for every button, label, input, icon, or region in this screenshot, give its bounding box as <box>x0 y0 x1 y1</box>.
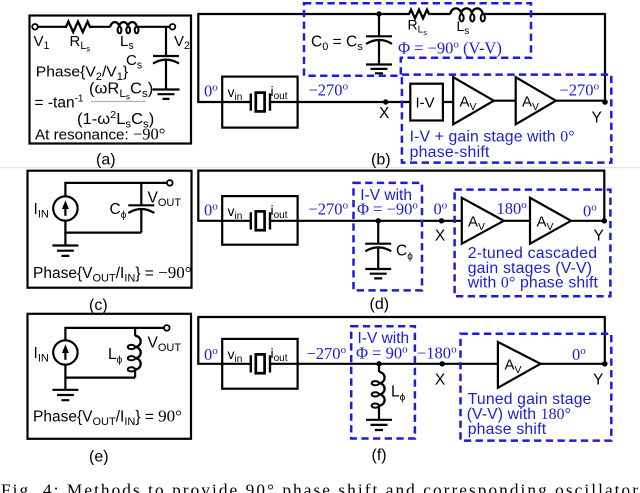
wire <box>38 26 64 28</box>
ground (d) <box>365 269 391 278</box>
svg-text:−270o: −270o <box>560 81 600 100</box>
svg-text:I-V: I-V <box>416 95 435 112</box>
formula numerator <box>89 80 153 101</box>
wire loop (d) <box>198 171 604 221</box>
wire crystal to I-V <box>270 101 410 103</box>
wire crystal to amp (f) <box>270 363 498 365</box>
node Y (b) <box>602 99 608 105</box>
svg-text:At resonance: −90°: At resonance: −90° <box>35 124 165 143</box>
wire into crystal (d) <box>197 220 251 222</box>
svg-text:(d): (d) <box>370 296 390 313</box>
inductor Ls (b) <box>451 8 485 21</box>
dashed box I-V (f) <box>351 326 415 438</box>
panel (c) frame <box>28 171 192 288</box>
capacitor Cs <box>153 56 179 90</box>
wire into crystal (f) <box>197 363 251 365</box>
inductor Lphi (e) <box>128 336 141 372</box>
svg-text:(f): (f) <box>372 447 387 464</box>
svg-text:Y: Y <box>594 227 604 244</box>
fraction bar <box>91 101 146 103</box>
capacitor C0 <box>366 36 392 64</box>
crystal X1 (d) <box>251 211 270 230</box>
formula denominator <box>77 109 154 130</box>
op-amp Av1 (d) <box>462 198 504 244</box>
panel (e) frame <box>28 314 192 439</box>
wire inductor branch (f) <box>378 364 380 372</box>
ground (c) <box>52 246 78 256</box>
terminal Vout (e) <box>164 325 170 331</box>
wire inductor branch (e) <box>134 328 136 336</box>
op-amp Av2 (b) <box>516 77 556 124</box>
op-amp Av1 (b) <box>453 77 494 124</box>
op-amp Av2 (d) <box>530 198 571 244</box>
wire into crystal <box>197 101 251 103</box>
svg-text:−270o: −270o <box>309 81 349 100</box>
wire loop left (b) <box>198 14 407 102</box>
svg-text:phase shift: phase shift <box>468 421 547 438</box>
crystal X1 (f) <box>251 354 270 373</box>
wire top (c) <box>65 183 167 196</box>
wire capacitor branch <box>165 27 167 56</box>
wire loop right (b) <box>483 14 605 102</box>
resistor R_Ls (b) <box>408 10 431 19</box>
inductor Lphi (f) <box>372 372 385 408</box>
svg-text:Fig. 4: Methods to provide 90°: Fig. 4: Methods to provide 90° phase shi… <box>1 480 638 493</box>
svg-text:with 0° phase shift: with 0° phase shift <box>467 275 599 292</box>
wire <box>430 13 450 15</box>
wire bottom (c) <box>65 221 141 233</box>
node cap tap (d) <box>376 218 381 223</box>
wire to Y (d) <box>571 220 604 222</box>
svg-text:(e): (e) <box>89 449 109 466</box>
wire top (e) <box>65 328 164 340</box>
inductor Ls (a) <box>110 22 138 33</box>
capacitor Cphi (d) <box>365 244 391 269</box>
svg-text:(a): (a) <box>96 152 116 169</box>
wire <box>494 100 516 102</box>
dashed box resonance (b) <box>304 3 531 76</box>
wire cap branch (c) <box>140 183 142 205</box>
svg-text:Y: Y <box>593 372 603 389</box>
I-V box (b) <box>410 84 443 121</box>
node Y (d) <box>602 218 608 224</box>
wire ground stem (c) <box>64 233 66 246</box>
crystal box (f) <box>222 339 297 389</box>
capacitor Cphi (c) <box>128 205 154 232</box>
ground (a) <box>153 90 180 99</box>
svg-text:C0 = Cs: C0 = Cs <box>311 34 363 54</box>
svg-text:X: X <box>435 372 446 389</box>
node inductor tap (f) <box>376 361 381 366</box>
resistor R_Ls (a) <box>64 21 93 32</box>
op-amp Av (f) <box>498 342 541 388</box>
svg-text:Φ = −90o (V-V): Φ = −90o (V-V) <box>398 39 502 58</box>
crystal box (b) <box>222 77 297 128</box>
svg-text:(b): (b) <box>371 152 391 169</box>
svg-text:−270o: −270o <box>307 344 347 363</box>
svg-text:−270o: −270o <box>309 199 349 218</box>
wire to Y <box>556 100 605 102</box>
svg-text:Y: Y <box>592 110 602 127</box>
ground C0 <box>366 65 392 74</box>
crystal box (d) <box>222 196 297 245</box>
dashed box gain (d) <box>455 190 611 297</box>
svg-text:(c): (c) <box>89 297 108 314</box>
node X (b) <box>383 99 388 104</box>
ground (e) <box>52 390 78 400</box>
wire crystal to amps (d) <box>270 220 462 222</box>
terminal V1 <box>32 24 38 30</box>
svg-text:Φ = 90o: Φ = 90o <box>356 343 408 362</box>
current source I_IN (e) <box>53 340 77 364</box>
wire cap branch (d) <box>377 221 379 244</box>
terminal Vout (c) <box>167 180 173 186</box>
wire to ground (f) <box>378 406 380 420</box>
faint separator line <box>0 167 640 169</box>
svg-text:Φ = −90o: Φ = −90o <box>357 199 418 218</box>
dashed box I-V (d) <box>354 183 423 291</box>
wire (e) <box>134 369 136 377</box>
svg-text:X: X <box>379 105 390 122</box>
wire bottom (e) <box>65 365 135 378</box>
crystal X1 (b) <box>251 93 270 112</box>
panel (a) frame <box>30 16 192 144</box>
svg-text:X: X <box>435 227 446 244</box>
node X (d) <box>439 218 444 223</box>
terminal V2 <box>170 24 176 30</box>
wire loop (f) <box>198 317 605 364</box>
svg-text:I-V + gain stage with 0°: I-V + gain stage with 0° <box>410 129 575 146</box>
wire <box>93 26 111 28</box>
wire ground stem (e) <box>64 378 66 390</box>
dashed box gain (f) <box>461 334 612 441</box>
node Y (f) <box>602 361 608 367</box>
wire <box>443 101 453 103</box>
wire <box>137 26 170 28</box>
node C0 tap <box>376 11 381 16</box>
dashed box gain (b) <box>402 75 611 163</box>
ground (f) <box>366 420 392 430</box>
svg-text:phase-shift: phase-shift <box>410 144 490 161</box>
node X (f) <box>439 361 444 366</box>
current source I_IN (c) <box>53 196 77 220</box>
wire to Y (f) <box>541 363 605 365</box>
wire (d) <box>504 220 530 222</box>
formula Phase{V2/V1} <box>36 64 128 83</box>
svg-text:−180o: −180o <box>417 343 457 362</box>
wire C0 branch <box>378 14 380 36</box>
